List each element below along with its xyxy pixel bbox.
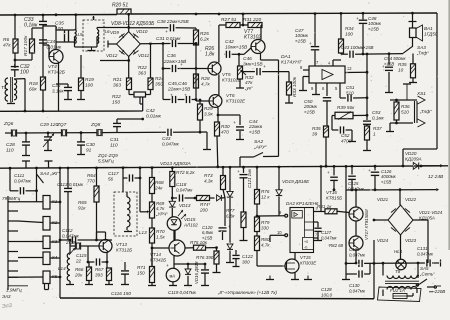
wire T8 left (383, 263, 419, 296)
svg-text:VD13 КД503А: VD13 КД503А (160, 161, 191, 167)
svg-text:R67: R67 (95, 267, 104, 272)
capacitor C29 trimmer (40, 122, 58, 151)
label C119 (168, 290, 197, 295)
svg-text:R81 1к: R81 1к (317, 204, 332, 209)
inductor box L13 dashed (114, 192, 137, 236)
svg-text:100: 100 (345, 31, 353, 36)
svg-text:+: + (170, 93, 173, 98)
svg-text:+: + (233, 121, 236, 126)
wire R17 bottom (15, 53, 32, 60)
svg-text:VD16 Д818: VD16 Д818 (194, 261, 199, 284)
svg-text:С28: С28 (6, 142, 15, 148)
transistor VT17 (349, 209, 369, 250)
wire tank top (56, 30, 75, 42)
capacitor C121 (237, 167, 252, 212)
svg-text:VD22: VD22 (405, 197, 417, 202)
transformer box T8 (378, 287, 422, 302)
svg-text:R73: R73 (204, 173, 213, 178)
svg-text:КД209А: КД209А (405, 156, 422, 161)
resistor R29 (198, 99, 214, 120)
label VD24 (377, 238, 389, 243)
pin2 stub (314, 222, 319, 227)
diode bridge VD8-VD12 (117, 32, 141, 57)
svg-text:110: 110 (110, 142, 118, 148)
svg-text:4,7к: 4,7к (261, 242, 270, 247)
svg-text:VT15: VT15 (300, 255, 311, 260)
svg-text:VT13: VT13 (116, 242, 127, 247)
relay K4 (43, 252, 58, 265)
svg-text:R68: R68 (155, 180, 164, 185)
svg-text:„АРУ“: „АРУ“ (253, 144, 267, 150)
svg-text:22мк×15В: 22мк×15В (167, 86, 191, 92)
resistor R75 (185, 240, 208, 250)
capacitor C36 (52, 83, 72, 100)
svg-text:С46: С46 (243, 56, 252, 62)
svg-text:6,2к: 6,2к (200, 36, 210, 42)
transistor VT13 (99, 240, 132, 253)
diode VD16 (184, 261, 199, 286)
wire R81 to VT16 (337, 211, 349, 212)
svg-text:0,047мк: 0,047мк (349, 252, 366, 257)
wire R75 right (206, 246, 218, 249)
capacitor C43b (162, 129, 207, 147)
ground VD18b (226, 251, 234, 263)
svg-text:×15В: ×15В (295, 38, 306, 43)
svg-text:510: 510 (401, 109, 409, 114)
diode VD17 (227, 191, 233, 197)
wire bridge right (140, 42, 170, 45)
svg-text:-0: -0 (304, 246, 307, 250)
svg-text:39: 39 (312, 131, 318, 136)
wire top supply bus right (131, 13, 437, 14)
capacitor C48 (356, 13, 382, 54)
wire LED down (173, 230, 175, 240)
resistor R37 (365, 126, 382, 140)
wire x163 feed (162, 42, 165, 99)
terminal bridge left (108, 41, 117, 48)
wire T1 secondary (14, 79, 26, 113)
capacitor C125 (348, 166, 365, 191)
svg-text:10мк×15В: 10мк×15В (225, 44, 248, 50)
capacitor C47 (295, 14, 319, 66)
wire y132 to C43 (117, 131, 166, 133)
wire VT4 emitter (58, 62, 60, 111)
svg-text:ZQ8: ZQ8 (90, 122, 101, 128)
ground row DA2 (266, 276, 312, 280)
svg-text:3,1мк: 3,1мк (52, 88, 65, 93)
svg-text:R19: R19 (85, 77, 94, 83)
wire agc line (261, 53, 279, 157)
svg-text:100: 100 (20, 69, 29, 75)
transformer T8 secondary (387, 287, 417, 290)
quartz ZQ8 (97, 129, 117, 136)
svg-text:SA2: SA2 (254, 139, 264, 145)
wire bridge2 bottom (400, 235, 402, 260)
node bus-j1 (14, 13, 130, 16)
wire VT15 down (291, 273, 299, 280)
wire bridge top (127, 14, 130, 31)
capacitor C46b (184, 93, 196, 104)
resistor R31 (243, 17, 262, 28)
wire x60 vertical (59, 168, 62, 298)
svg-text:200: 200 (199, 207, 208, 212)
svg-text:R25: R25 (200, 31, 209, 37)
wire vt13 top link (97, 232, 106, 240)
svg-text:ВА1: ВА1 (424, 26, 433, 31)
svg-text:R29: R29 (204, 106, 213, 111)
svg-text:R64: R64 (87, 173, 96, 178)
svg-text:КП303Е: КП303Е (300, 260, 317, 265)
svg-text:R6: R6 (3, 37, 9, 43)
wire VD17 down (229, 198, 231, 244)
svg-text:R33 100к: R33 100к (292, 76, 297, 97)
svg-text:22: 22 (75, 258, 82, 263)
svg-text:R37: R37 (373, 126, 382, 131)
label C128 (321, 287, 333, 297)
wire K right links (50, 202, 60, 277)
svg-text:20к: 20к (74, 272, 83, 277)
resistor R33 (287, 76, 298, 97)
label ZQ row (97, 153, 118, 163)
wire tank feed (75, 15, 77, 30)
svg-text:КТ3102: КТ3102 (244, 34, 261, 40)
svg-text:770: 770 (87, 178, 95, 183)
capacitor C119c (201, 264, 209, 286)
svg-text:R39 56к: R39 56к (337, 105, 355, 110)
capacitor C126 (368, 166, 397, 190)
node zq-b (80, 131, 83, 134)
trimmer arrow ZQ9 (69, 248, 75, 255)
svg-text:АЛ102: АЛ102 (183, 222, 198, 227)
pin3 stub (314, 206, 322, 212)
capacitor C45 (163, 81, 191, 103)
wire x367 (366, 53, 369, 120)
relay K2 (43, 217, 58, 231)
wire bridge2 right (413, 220, 428, 263)
svg-text:330: 330 (261, 225, 269, 230)
ground C43 right (203, 132, 211, 150)
resistor R73 (204, 167, 226, 189)
svg-text:150: 150 (112, 99, 120, 105)
svg-text:+: + (327, 170, 330, 175)
wire R36 bottom (386, 120, 398, 132)
wire x230 drop (229, 167, 231, 191)
svg-text:R71: R71 (137, 265, 146, 270)
wire R24 bottom (146, 90, 151, 95)
svg-text:47к: 47к (3, 42, 11, 48)
resistor R68 (150, 168, 164, 194)
svg-text:С121 1мк: С121 1мк (247, 168, 252, 188)
wire fuse link (407, 293, 413, 296)
svg-text:0,01мк: 0,01мк (146, 113, 162, 119)
svg-text:R77: R77 (226, 208, 235, 213)
capacitor C113 (57, 168, 84, 240)
op-amp DA1 (281, 54, 345, 83)
svg-text:С43 100мк×15В: С43 100мк×15В (341, 45, 374, 50)
svg-text:L14: L14 (58, 266, 66, 271)
capacitor C111 (10, 173, 38, 194)
ground R77 (240, 228, 248, 241)
resistor R27 (219, 17, 240, 28)
svg-text:С112: С112 (62, 228, 73, 233)
svg-text:L13: L13 (139, 230, 147, 235)
svg-text:DA2 КР142ЕН6: DA2 КР142ЕН6 (286, 201, 319, 206)
label bridge2 (419, 210, 443, 220)
svg-text:363: 363 (113, 82, 121, 88)
capacitor C54 (382, 54, 406, 93)
wire R18 to bus (42, 90, 45, 112)
quartz ZQ7 (61, 129, 97, 136)
svg-text:VD10: VD10 (136, 29, 148, 34)
lamp HL1 (394, 249, 406, 270)
svg-text:0,047мк: 0,047мк (162, 141, 180, 146)
fuse FU1 (390, 288, 407, 299)
svg-text:4,3к: 4,3к (204, 178, 214, 183)
svg-text:С38 22мк×25В: С38 22мк×25В (157, 19, 189, 24)
quartz ZQ6 (5, 129, 61, 136)
svg-text:R76 390: R76 390 (196, 255, 214, 260)
svg-text:0,047мк: 0,047мк (14, 178, 32, 183)
diode VD14r (210, 195, 226, 201)
svg-text:R22: R22 (138, 65, 147, 71)
capacitor C31 (156, 36, 197, 47)
svg-text:С36: С36 (167, 53, 176, 59)
svg-text:R27 51: R27 51 (221, 17, 237, 23)
svg-text:VD23: VD23 (405, 238, 417, 243)
capacitor C115 (75, 246, 107, 266)
svg-text:FU1 1А: FU1 1А (390, 288, 405, 293)
capacitor C131 (417, 246, 441, 267)
resistor R66 (74, 262, 92, 281)
wire pin10 (270, 230, 288, 242)
label R82 (329, 243, 344, 248)
svg-text:VD24: VD24 (377, 238, 389, 243)
coil L5 (75, 30, 84, 44)
capacitor C117 (108, 168, 140, 192)
ground R71 (148, 283, 156, 286)
resistor R74 (197, 196, 211, 213)
label R22a (138, 65, 147, 76)
svg-text:С29 120: С29 120 (40, 122, 58, 128)
resistor R32 var (238, 54, 254, 90)
ground C130 (342, 274, 350, 280)
resistor R77 (226, 208, 246, 228)
svg-text:„Тлф“: „Тлф“ (416, 50, 429, 55)
node pin9 node (256, 215, 259, 218)
svg-text:VD8-VD12 КД503Б: VD8-VD12 КД503Б (111, 21, 155, 27)
wire VT14 base (151, 247, 169, 250)
terminal +12V out (422, 164, 444, 180)
svg-text:12 к: 12 к (261, 194, 270, 199)
svg-text:Т8: Т8 (395, 269, 401, 274)
wire x36.5 drop (36, 168, 38, 202)
svg-text:100,0: 100,0 (321, 292, 333, 297)
svg-text:VT17 КТ815БМ: VT17 КТ815БМ (364, 209, 369, 240)
svg-text:Эл3: Эл3 (2, 303, 13, 310)
label ZQ7 (56, 122, 67, 128)
wire C130 row (346, 263, 357, 274)
relay K5 (43, 271, 58, 290)
wire VT4 base (43, 45, 49, 57)
svg-text:R76: R76 (261, 189, 270, 194)
label VD23 (405, 238, 417, 243)
wire VT13 emitter (106, 253, 109, 269)
svg-text:24к: 24к (154, 185, 163, 190)
svg-text:R74*: R74* (200, 202, 210, 207)
ground XS1 top (403, 84, 411, 100)
svg-text:КТ3102Е: КТ3102Е (226, 98, 246, 103)
svg-text:+0: +0 (304, 240, 308, 244)
coil L14 (58, 240, 70, 281)
resistor R81 (317, 204, 337, 214)
label R65 (78, 200, 87, 210)
svg-text:VD12: VD12 (106, 53, 118, 58)
svg-text:С130: С130 (349, 283, 360, 288)
wire VT13 collector (105, 232, 107, 240)
svg-text:×15В: ×15В (249, 129, 260, 134)
wire R76c down (256, 204, 258, 217)
node base nodes (195, 42, 198, 101)
pin 8 stub (300, 65, 309, 70)
svg-text:С42: С42 (225, 39, 234, 45)
pin 7 (316, 60, 319, 65)
capacitor C122 (232, 250, 253, 267)
resistor R20 (112, 3, 131, 15)
svg-text:R82 68: R82 68 (329, 243, 344, 248)
transistor VT7 (244, 29, 265, 54)
wire R72 down (171, 187, 173, 202)
svg-text:+: + (165, 30, 168, 35)
wire R35b to bus (325, 137, 328, 168)
svg-text:10: 10 (277, 230, 282, 235)
pin7 stub (314, 232, 319, 238)
ground R35 (409, 78, 417, 83)
wire R27-R31 (240, 24, 248, 27)
svg-text:393: 393 (95, 272, 103, 277)
svg-text:×15В: ×15В (368, 26, 379, 31)
wire band comb (8, 196, 43, 290)
scan smudge bottomleft (2, 303, 13, 310)
wire R32 down (236, 79, 244, 88)
ground marks above bus (22, 161, 53, 168)
capacitor C51 (340, 85, 368, 102)
wire VD13-LED (171, 208, 173, 217)
svg-text:300: 300 (242, 259, 250, 264)
svg-text:С30: С30 (86, 142, 95, 148)
svg-text:56: 56 (108, 176, 114, 181)
svg-text:6,8к: 6,8к (226, 213, 235, 218)
relay K3 (43, 236, 58, 249)
quartz ZQ9 (65, 240, 99, 250)
svg-text:12 24В: 12 24В (428, 174, 444, 180)
capacitor C53 (363, 110, 385, 126)
capacitor C52 (332, 116, 356, 144)
ground R37 (363, 140, 371, 151)
svg-text:„8“-«Управление» (+12В 7х): „8“-«Управление» (+12В 7х) (217, 290, 277, 295)
svg-text:4,7к: 4,7к (201, 81, 211, 86)
wire R17 top (32, 28, 43, 39)
ground R66 (85, 281, 93, 285)
ground R19 (77, 91, 85, 100)
capacitor C123 (327, 166, 338, 191)
resistor R35b (312, 126, 329, 137)
switch SA2 (240, 139, 279, 167)
resistor R72 (170, 168, 196, 187)
svg-text:+: + (166, 264, 169, 269)
label VT16 (326, 190, 342, 200)
wire R29 bottom (199, 120, 202, 134)
svg-text:110: 110 (6, 147, 14, 153)
resistor R19 (79, 55, 95, 91)
svg-text:С34: С34 (47, 39, 56, 44)
svg-text:С51: С51 (346, 85, 355, 90)
resistor R24 (148, 44, 164, 90)
coil L13 (127, 192, 130, 230)
wire x10 drop (9, 168, 11, 191)
resistor R79 (255, 217, 270, 232)
svg-text:С43: С43 (162, 136, 171, 141)
svg-text:×15В: ×15В (381, 179, 391, 184)
label VD12 (106, 53, 118, 58)
svg-text:0,047мк: 0,047мк (176, 187, 193, 192)
coil L6 (97, 29, 110, 44)
svg-text:ZQ1-ZQ9: ZQ1-ZQ9 (97, 153, 118, 158)
svg-text:R80: R80 (261, 237, 270, 242)
capacitor C46 (243, 56, 289, 75)
wire left drop x15 (14, 15, 16, 39)
ground L14 (66, 281, 74, 285)
switch SA4 (37, 171, 61, 183)
svg-text:7: 7 (315, 232, 317, 237)
wire pin9 (257, 210, 288, 217)
label VD8-VD12 (111, 21, 155, 27)
svg-text:5,5МГц: 5,5МГц (98, 158, 114, 163)
wire bridge2 top (399, 190, 401, 205)
wire top supply bus left (0, 14, 117, 17)
svg-text:1: 1 (373, 131, 376, 136)
pin 5 stub (335, 83, 340, 98)
svg-text:1,5к: 1,5к (156, 234, 166, 239)
capacitor C50 (303, 98, 331, 126)
ground DA1 left (299, 90, 307, 92)
wire bridge2 left (373, 219, 388, 222)
svg-text:+: + (237, 169, 240, 174)
svg-text:SA3: SA3 (417, 45, 426, 50)
node bus-j2 (195, 12, 414, 16)
svg-text:363: 363 (138, 70, 146, 76)
transistor VT5 (208, 62, 242, 82)
wire y263 row (345, 166, 357, 264)
svg-text:100: 100 (85, 82, 93, 88)
capacitor C130 (349, 263, 370, 293)
capacitor C42b (224, 39, 252, 58)
inductor box L5L6 dashed (83, 16, 104, 51)
wire R80 down (257, 251, 283, 267)
capacitor C43c (341, 45, 385, 58)
svg-text:КТ312Б: КТ312Б (116, 247, 132, 252)
speaker BA1 (409, 13, 438, 41)
svg-text:VT5: VT5 (222, 72, 231, 77)
pin 12 stub (345, 66, 368, 74)
svg-text:+: + (263, 65, 266, 70)
svg-text:R36: R36 (401, 104, 410, 109)
ground R33 (285, 95, 293, 103)
svg-text:VT6: VT6 (226, 93, 235, 98)
ground DA1 pin9 (312, 94, 320, 96)
label VD9 (110, 30, 119, 35)
capacitor C30 (77, 133, 95, 155)
resistor R69 var (140, 201, 168, 218)
